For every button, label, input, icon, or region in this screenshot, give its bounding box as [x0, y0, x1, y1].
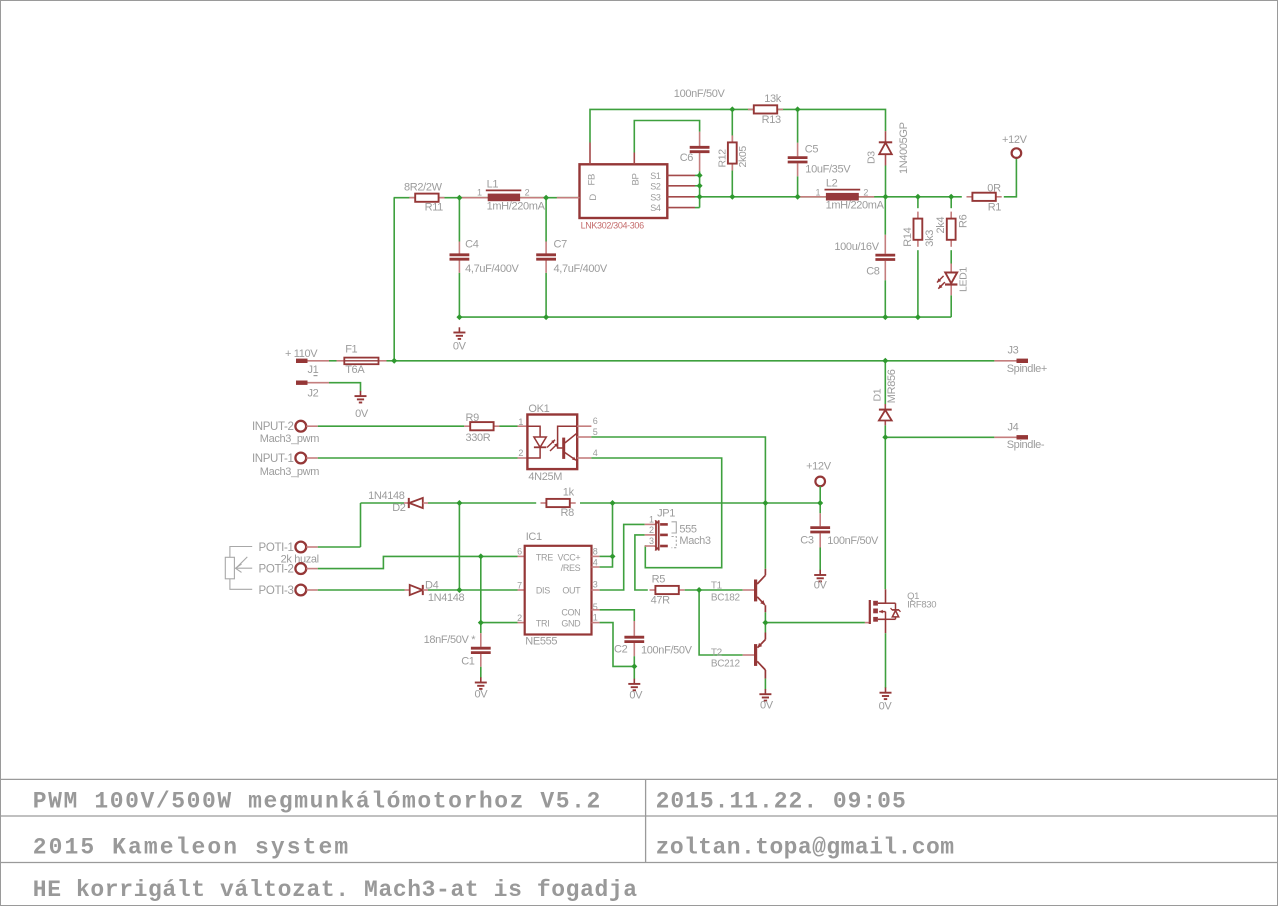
svg-text:C3: C3: [800, 535, 814, 547]
svg-text:J3: J3: [1008, 345, 1019, 357]
svg-text:4,7uF/400V: 4,7uF/400V: [465, 263, 519, 275]
svg-text:8R2/2W: 8R2/2W: [404, 181, 443, 193]
svg-text:0V: 0V: [453, 341, 467, 353]
svg-text:R14: R14: [902, 227, 914, 246]
wire base branch down to T2: [699, 590, 743, 655]
wire main 110V rail to J3: [394, 360, 994, 362]
svg-text:2: 2: [525, 187, 530, 197]
wire IC1 OUT to JP1 pin1: [600, 524, 645, 590]
wire JP1 pin2 to R5: [635, 535, 648, 590]
title block frame: [1, 779, 1277, 862]
svg-text:D1: D1: [872, 388, 884, 401]
svg-text:0V: 0V: [879, 700, 893, 712]
svg-text:Spindle+: Spindle+: [1007, 363, 1047, 375]
ground 0V at J2: [355, 391, 369, 420]
svg-text:INPUT-1: INPUT-1: [252, 453, 294, 465]
svg-text:C7: C7: [554, 239, 568, 251]
wire OK1 pin5 to T1 collector net: [591, 437, 765, 569]
supply +12V top right: [1002, 134, 1028, 158]
svg-text:DIS: DIS: [536, 586, 550, 596]
wire R14 branch: [917, 197, 919, 317]
fuse F1 T6A: [329, 343, 387, 376]
LED LED1: [937, 264, 970, 296]
svg-text:8: 8: [593, 547, 598, 557]
wire S-pin bus vertical: [699, 171, 701, 207]
svg-text:T1: T1: [711, 580, 723, 591]
capacitor C1: [424, 633, 491, 678]
pad J4 Spindle-: [994, 421, 1045, 450]
wire IC1 GND to C2 bottom junction: [600, 623, 635, 667]
wire TRE branch vertical: [480, 556, 482, 622]
svg-text:0V: 0V: [760, 699, 774, 711]
optocoupler OK1 4N25M: [518, 403, 597, 483]
net connector POTI-1: [259, 542, 307, 554]
svg-text:2015.11.22. 09:05: 2015.11.22. 09:05: [656, 789, 907, 815]
svg-text:47R: 47R: [651, 595, 671, 607]
net connector INPUT-2: [252, 421, 319, 445]
svg-text:D: D: [588, 194, 599, 201]
wire D2 branch vertical: [458, 503, 460, 590]
wire D4 to IC1 DIS: [428, 589, 525, 591]
svg-text:18nF/50V *: 18nF/50V *: [424, 634, 477, 646]
svg-text:S4: S4: [650, 203, 661, 213]
svg-text:0V: 0V: [629, 689, 643, 701]
svg-text:INPUT-2: INPUT-2: [252, 421, 294, 433]
svg-text:3: 3: [593, 580, 598, 590]
label 100nF/50V for C6: [674, 88, 726, 100]
diode D2 1N4148: [361, 490, 429, 514]
wire C2 junction to ground: [633, 666, 635, 679]
net connector POTI-3: [259, 585, 307, 597]
svg-text:R5: R5: [652, 574, 666, 586]
resistor R9 330R: [464, 412, 499, 444]
svg-text:2: 2: [863, 187, 868, 197]
wire POTI-1 to D2 vertical: [306, 546, 360, 548]
svg-text:6: 6: [517, 547, 522, 557]
svg-text:L2: L2: [826, 178, 838, 190]
svg-text:0V: 0V: [814, 580, 828, 592]
svg-text:330R: 330R: [466, 432, 491, 444]
svg-text:3k3: 3k3: [924, 230, 936, 247]
svg-text:/RES: /RES: [561, 563, 581, 573]
svg-text:C4: C4: [465, 239, 479, 251]
wire D3 lower net: [885, 166, 887, 197]
capacitor C8: [834, 235, 895, 280]
net connector INPUT-1: [252, 453, 319, 478]
wire fuse to rail: [387, 360, 395, 362]
inductor L1: [459, 178, 546, 212]
title text row 2: [33, 835, 955, 861]
IC U1 LNK302/304-306: [557, 143, 668, 231]
capacitor C2: [614, 621, 693, 666]
svg-text:0R: 0R: [987, 183, 1001, 195]
svg-text:2: 2: [517, 613, 522, 623]
wire R5 to transistor bases: [685, 589, 743, 591]
svg-text:IRF830: IRF830: [907, 600, 936, 611]
svg-text:T6A: T6A: [345, 364, 365, 376]
resistor R12: [716, 135, 749, 170]
svg-text:0V: 0V: [355, 408, 369, 420]
svg-text:S2: S2: [650, 181, 661, 191]
svg-text:555: 555: [679, 524, 697, 536]
wire R8 to +12V node: [580, 502, 820, 504]
diode D3 1N4005GP: [866, 122, 910, 174]
resistor R13: [748, 93, 783, 126]
pinheader JP1: [645, 507, 676, 550]
svg-text:5: 5: [593, 427, 598, 437]
wire FB net (LNK FB pin up and across to D3): [590, 109, 886, 142]
wire main D rail (R11 - L1 - LNK D pin): [394, 197, 580, 199]
svg-text:Mach3_pwm: Mach3_pwm: [260, 433, 319, 445]
svg-text:1mH/220mA: 1mH/220mA: [826, 200, 885, 212]
svg-text:0V: 0V: [475, 689, 489, 701]
capacitor C6: [680, 132, 710, 171]
IC IC1 NE555: [517, 531, 599, 648]
wire D2 left vertical to POTI-1: [360, 503, 362, 547]
capacitor C5: [788, 143, 852, 177]
svg-text:J4: J4: [1008, 421, 1019, 433]
svg-text:IC1: IC1: [526, 531, 542, 543]
ground 0V at T2: [759, 689, 773, 711]
wire T1 emitter to output node: [764, 612, 766, 622]
ground 0V at C4: [453, 327, 467, 352]
JP1 option brackets: [672, 522, 711, 548]
svg-text:1: 1: [477, 187, 482, 197]
svg-text:R8: R8: [561, 507, 575, 519]
svg-text:C6: C6: [680, 152, 694, 164]
svg-text:BC212: BC212: [711, 659, 741, 670]
svg-text:JP1: JP1: [657, 507, 675, 519]
svg-text:1: 1: [649, 514, 654, 524]
svg-text:T2: T2: [711, 648, 723, 659]
wire T2 collector to ground: [764, 679, 766, 690]
wire INPUT-1 to OK1 pin2: [306, 457, 527, 459]
svg-text:13k: 13k: [764, 93, 782, 105]
wire POTI-2 to IC1 TRE: [306, 556, 524, 568]
svg-text:1mH/220mA: 1mH/220mA: [487, 200, 546, 212]
resistor R14: [902, 212, 936, 247]
svg-text:100nF/50V: 100nF/50V: [674, 88, 726, 100]
wire R1 to +12V post: [1004, 158, 1017, 197]
svg-text:C2: C2: [614, 644, 628, 656]
wire J4 line: [885, 436, 994, 438]
wire output node to Q1 gate: [765, 622, 865, 624]
svg-text:R6: R6: [957, 214, 969, 228]
wire IC1 CON to C2: [600, 610, 635, 621]
wire D2 to R8: [428, 502, 536, 504]
ground 0V at C1: [475, 677, 489, 700]
svg-text:1: 1: [518, 417, 523, 427]
svg-text:1N4148: 1N4148: [368, 490, 405, 502]
svg-text:S1: S1: [650, 171, 661, 181]
svg-text:+12V: +12V: [806, 460, 832, 472]
svg-text:2: 2: [649, 525, 654, 535]
svg-text:VCC+: VCC+: [557, 553, 580, 563]
svg-text:1: 1: [593, 613, 598, 623]
wire D1 node down to Q1 drain: [884, 437, 886, 589]
svg-text:TRE: TRE: [536, 553, 553, 563]
wire R9 to OK1 pin1: [500, 425, 528, 427]
ground 0V at C2: [628, 679, 643, 702]
ground 0V at C3: [814, 570, 828, 592]
wire BP net to C6: [634, 121, 699, 153]
title text row 3: [33, 877, 638, 903]
transistor T1 BC182: [711, 569, 766, 613]
svg-text:CON: CON: [561, 607, 580, 617]
transistor Q1 IRF830: [865, 589, 936, 633]
svg-text:MR856: MR856: [886, 369, 898, 403]
svg-text:R12: R12: [716, 149, 728, 168]
svg-text:F1: F1: [345, 343, 357, 355]
svg-text:+ 110V: + 110V: [285, 348, 318, 360]
svg-text:+12V: +12V: [1002, 134, 1028, 146]
diode D4 1N4148: [405, 580, 465, 605]
svg-text:100u/16V: 100u/16V: [834, 241, 879, 253]
svg-text:NE555: NE555: [525, 635, 557, 647]
label 2k huzal: [281, 553, 319, 565]
ground 0V at Q1: [879, 688, 893, 713]
svg-text:LED1: LED1: [958, 267, 970, 292]
svg-text:GND: GND: [561, 618, 581, 628]
svg-text:J2: J2: [308, 387, 319, 399]
resistor R5 47R: [650, 574, 685, 607]
title text row 1: [33, 789, 907, 815]
svg-text:4,7uF/400V: 4,7uF/400V: [554, 263, 608, 275]
svg-text:4N25M: 4N25M: [528, 471, 562, 483]
potentiometer sketch (gray): [225, 547, 252, 590]
wire IC1 pins 8+4 to R8 net: [600, 503, 613, 567]
diode D1 MR856: [872, 361, 899, 438]
svg-text:4: 4: [593, 557, 598, 567]
inductor L2: [798, 178, 885, 212]
svg-text:BC182: BC182: [711, 592, 741, 603]
svg-text:R11: R11: [425, 202, 444, 214]
svg-text:2k05: 2k05: [737, 146, 749, 168]
svg-text:R13: R13: [762, 114, 781, 126]
wire J2 to ground: [329, 383, 361, 392]
svg-text:OUT: OUT: [562, 586, 581, 596]
svg-text:2015 Kameleon system: 2015 Kameleon system: [33, 835, 350, 861]
wire C4 branch: [458, 198, 460, 317]
wire 0V rail under supply: [459, 316, 951, 318]
svg-text:100nF/50V: 100nF/50V: [641, 645, 693, 657]
pad J3 Spindle+: [994, 345, 1047, 375]
pad J2: [296, 381, 329, 400]
wire TRI line and C1 branch: [481, 623, 525, 634]
svg-text:LNK302/304-306: LNK302/304-306: [581, 221, 644, 231]
resistor R1: [967, 183, 1002, 214]
wire C8 branch: [884, 197, 886, 317]
wire R6-LED1 branch: [950, 197, 952, 317]
capacitor C3: [800, 503, 879, 570]
svg-text:6: 6: [593, 416, 598, 426]
svg-text:BP: BP: [631, 174, 642, 186]
wire Q1 source to ground: [885, 633, 887, 688]
svg-text:1N4005GP: 1N4005GP: [898, 122, 910, 174]
svg-text:L1: L1: [487, 178, 499, 190]
svg-text:PWM 100V/500W megmunkálómotorh: PWM 100V/500W megmunkálómotorhoz V5.2: [33, 789, 602, 815]
resistor R8 1k: [541, 486, 576, 519]
wire OK1 pin4 to JP1 pin3: [591, 458, 721, 568]
svg-text:100nF/50V: 100nF/50V: [827, 535, 879, 547]
svg-text:POTI-1: POTI-1: [259, 542, 294, 554]
wire POTI-3 to D4: [306, 589, 404, 591]
svg-text:Mach3: Mach3: [679, 535, 710, 547]
capacitor C7: [536, 239, 608, 276]
transistor T2 BC212: [711, 633, 766, 679]
svg-text:zoltan.topa@gmail.com: zoltan.topa@gmail.com: [656, 835, 955, 861]
wire output node down to T2 emitter: [764, 623, 766, 633]
svg-text:HE korrigált változat. Mach3-a: HE korrigált változat. Mach3-at is fogad…: [33, 877, 638, 903]
svg-text:J1: J1: [308, 364, 319, 376]
resistor R6: [935, 212, 969, 247]
svg-text:D3: D3: [866, 151, 878, 164]
wire INPUT-2 to R9: [306, 425, 464, 427]
svg-text:D2: D2: [392, 502, 406, 514]
svg-text:2: 2: [518, 448, 523, 458]
wire left vertical to fuse rail: [393, 198, 395, 361]
svg-text:S3: S3: [650, 192, 661, 202]
svg-text:2k4: 2k4: [935, 217, 947, 234]
svg-text:7: 7: [517, 580, 522, 590]
pad J1: [285, 348, 329, 376]
supply +12V middle: [806, 460, 832, 503]
wire R12 vertical net: [731, 109, 733, 196]
capacitor C4: [450, 239, 520, 276]
svg-text:Spindle-: Spindle-: [1007, 439, 1045, 451]
wire C7 branch: [545, 198, 547, 317]
svg-text:3: 3: [649, 536, 654, 546]
svg-text:POTI-3: POTI-3: [259, 585, 294, 597]
svg-text:TRI: TRI: [536, 618, 549, 628]
svg-text:R1: R1: [988, 201, 1002, 213]
svg-text:1k: 1k: [563, 486, 575, 498]
LNK S pins: [667, 175, 699, 207]
svg-text:FB: FB: [587, 174, 598, 185]
svg-text:C8: C8: [866, 266, 880, 278]
svg-text:OK1: OK1: [528, 403, 549, 415]
svg-text:C1: C1: [461, 655, 475, 667]
svg-text:Mach3_pwm: Mach3_pwm: [260, 466, 319, 478]
svg-text:C5: C5: [805, 143, 819, 155]
svg-text:4: 4: [593, 448, 598, 458]
net connector POTI-2: [259, 563, 307, 575]
svg-text:10uF/35V: 10uF/35V: [805, 163, 851, 175]
wire S3 rail to +12V corner: [700, 196, 962, 198]
resistor R11: [404, 181, 445, 213]
svg-text:1N4148: 1N4148: [428, 592, 465, 604]
svg-text:R9: R9: [466, 412, 480, 424]
wire C5 vertical net: [797, 109, 799, 196]
svg-text:POTI-2: POTI-2: [259, 563, 294, 575]
svg-text:1: 1: [816, 187, 821, 197]
